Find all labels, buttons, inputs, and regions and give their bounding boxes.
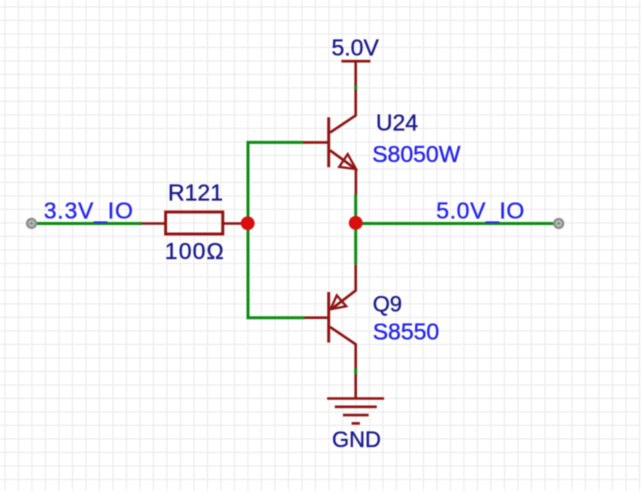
svg-text:R121: R121: [168, 180, 223, 206]
svg-text:100Ω: 100Ω: [165, 238, 225, 264]
svg-text:5.0V_IO: 5.0V_IO: [436, 197, 525, 223]
svg-text:S8050W: S8050W: [372, 141, 461, 167]
svg-text:Q9: Q9: [373, 292, 402, 317]
svg-text:S8550: S8550: [373, 318, 440, 344]
svg-text:5.0V: 5.0V: [332, 35, 380, 61]
svg-text:U24: U24: [376, 110, 418, 136]
svg-text:3.3V_IO: 3.3V_IO: [44, 197, 134, 223]
svg-text:GND: GND: [332, 427, 381, 452]
